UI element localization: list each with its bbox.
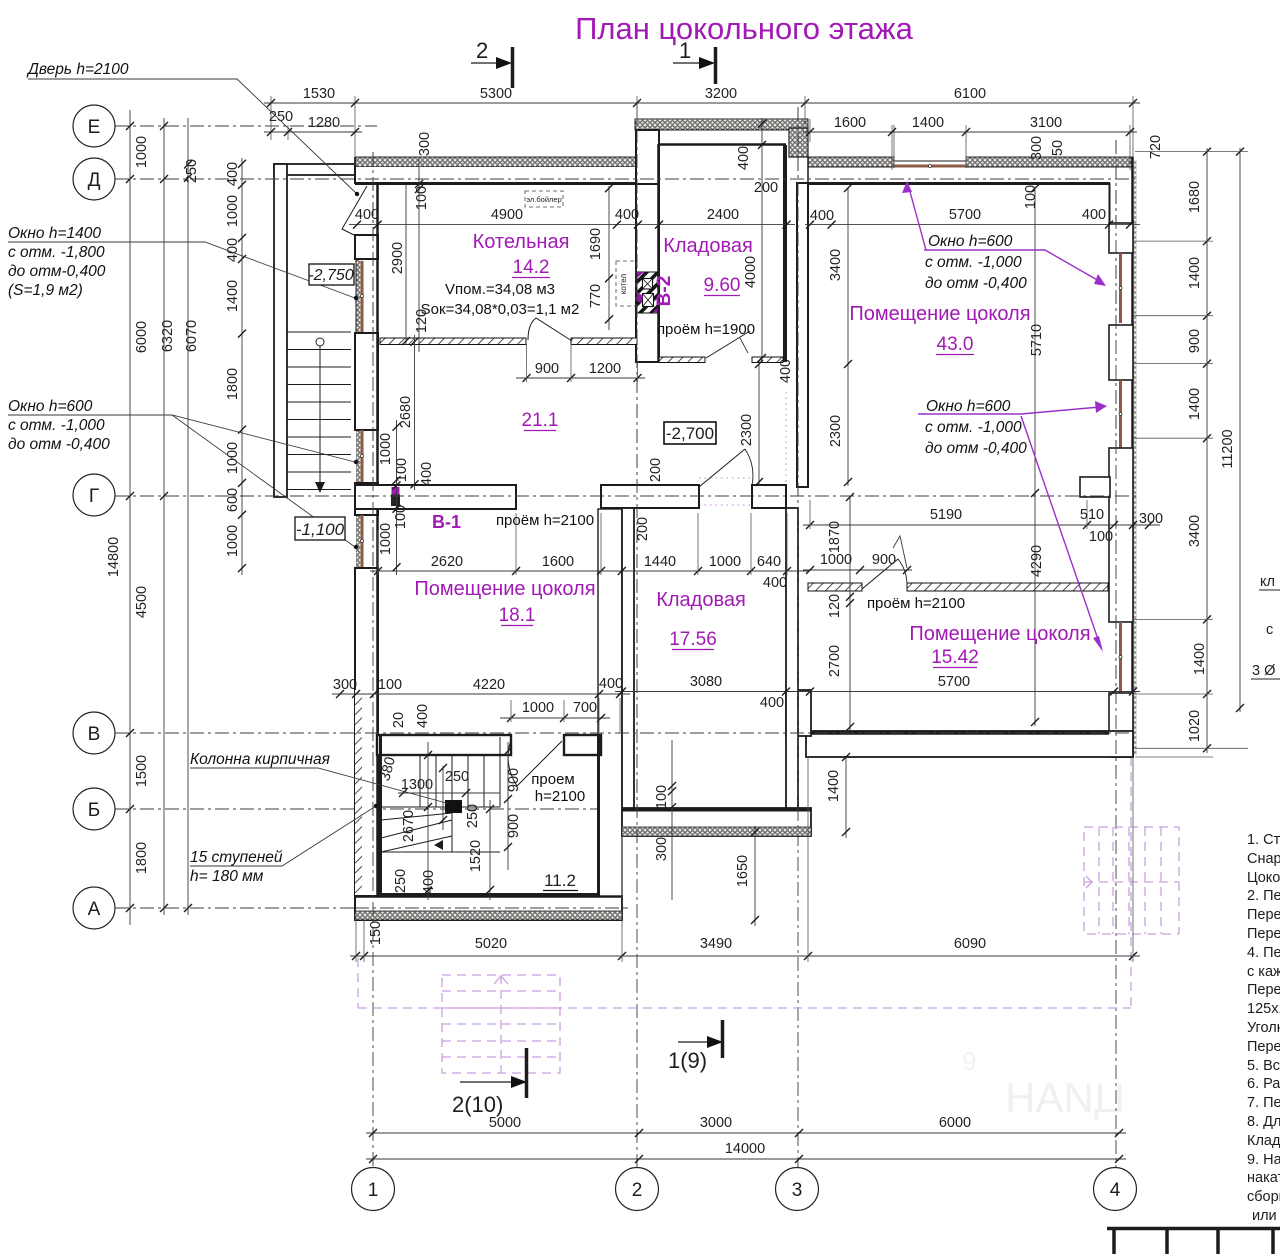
svg-text:5300: 5300 (480, 86, 512, 102)
west wall window W2 (361, 430, 364, 483)
svg-text:3100: 3100 (1030, 115, 1062, 131)
svg-text:14800: 14800 (106, 537, 122, 577)
svg-text:400: 400 (615, 207, 639, 223)
el.boyler dashed box (525, 191, 563, 207)
svg-text:1000: 1000 (225, 195, 241, 227)
svg-text:7. Перего: 7. Перего (1247, 1095, 1280, 1111)
east partition east seg (907, 583, 1108, 591)
svg-text:-1,100: -1,100 (296, 520, 345, 539)
room 11.2 top wall east (564, 735, 601, 755)
svg-text:720: 720 (1148, 135, 1164, 159)
svg-text:250: 250 (269, 109, 293, 125)
north wall west: body (355, 167, 637, 184)
svg-text:250: 250 (445, 769, 469, 785)
svg-text:200: 200 (754, 180, 778, 196)
svg-text:План цокольного этажа: План цокольного этажа (575, 11, 914, 46)
svg-text:до отм -0,400: до отм -0,400 (925, 275, 1027, 292)
svg-text:6100: 6100 (954, 86, 986, 102)
svg-text:Г: Г (89, 486, 99, 507)
svg-text:400: 400 (760, 695, 784, 711)
svg-text:400: 400 (419, 462, 435, 486)
svg-text:Помещение цоколя: Помещение цоколя (909, 623, 1090, 645)
svg-text:проём h=2100: проём h=2100 (867, 595, 965, 612)
axis D (115, 178, 1135, 180)
terrace stair walk line (316, 338, 324, 346)
svg-text:3400: 3400 (828, 249, 844, 281)
south wall east wing (806, 731, 1133, 757)
svg-text:1000: 1000 (378, 433, 394, 465)
svg-text:2300: 2300 (828, 415, 844, 447)
axis A (115, 907, 628, 909)
circle 2 (616, 1168, 659, 1211)
north wall east inner line (808, 182, 1110, 185)
svg-text:1000: 1000 (225, 442, 241, 474)
svg-text:Б: Б (88, 800, 100, 821)
dim 900/900/1520 vline (507, 742, 509, 870)
bump top wall inner line (659, 143, 786, 146)
svg-text:1440: 1440 (644, 554, 676, 570)
svg-text:Окно h=600: Окно h=600 (926, 398, 1011, 415)
circle E (73, 105, 115, 147)
svg-text:2670: 2670 (401, 810, 417, 842)
west wall window W3 (361, 515, 364, 568)
west wall lower solid (355, 568, 378, 920)
dim row y224 west (349, 224, 795, 226)
room 11.2 bottom wall (379, 893, 600, 896)
section marker 2 top (471, 38, 513, 88)
svg-text:100: 100 (393, 505, 409, 529)
vlines 2300 (758, 364, 760, 486)
svg-text:3200: 3200 (705, 86, 737, 102)
svg-text:100: 100 (378, 677, 402, 693)
svg-text:125х125: 125х125 (1247, 1001, 1280, 1017)
svg-text:Перемыч: Перемыч (1247, 1039, 1280, 1055)
svg-text:Окно h=600: Окно h=600 (928, 233, 1013, 250)
slab outline dashed right (1130, 757, 1132, 1008)
svg-text:5710: 5710 (1029, 324, 1045, 356)
svg-text:проем: проем (531, 771, 574, 788)
extension lines top (271, 96, 1133, 170)
svg-text:до отм-0,400: до отм-0,400 (8, 263, 106, 280)
svg-text:1400: 1400 (1187, 257, 1203, 289)
svg-text:300: 300 (333, 677, 357, 693)
svg-text:до отм -0,400: до отм -0,400 (925, 440, 1027, 457)
svg-text:250: 250 (393, 869, 409, 893)
svg-text:1680: 1680 (1187, 181, 1203, 213)
east wall window W1 (1119, 253, 1122, 323)
window in north wall (894, 165, 966, 168)
east wall outer line (1131, 157, 1134, 757)
east wall pier3 (1109, 448, 1133, 622)
east wall pier2 (1109, 325, 1133, 380)
svg-text:5700: 5700 (949, 207, 981, 223)
svg-text:Перемыч: Перемыч (1247, 907, 1280, 923)
svg-text:сборных: сборных (1247, 1189, 1280, 1205)
kladovaya 17.56 right wall (786, 508, 798, 808)
inner vlines x406/x419 (405, 184, 407, 345)
svg-text:1800: 1800 (225, 368, 241, 400)
right ext horizontals (1133, 152, 1248, 757)
slab outline dashed bottom (358, 1007, 1131, 1009)
terrace top wall (274, 164, 355, 175)
room 11.2 right wall (597, 735, 600, 895)
svg-text:Перемыч: Перемыч (1247, 926, 1280, 942)
kladovaya 17.56 bottom wall (622, 808, 811, 811)
circle V (73, 712, 115, 754)
west wall window W1 (356, 259, 377, 333)
svg-text:ЦИАН: ЦИАН (1005, 1074, 1125, 1121)
duct wall between 11.2 and 17.56 (598, 509, 622, 896)
svg-text:1400: 1400 (912, 115, 944, 131)
axis 1 (372, 152, 374, 1168)
kotel dashed box (616, 261, 636, 306)
svg-text:510: 510 (1080, 507, 1104, 523)
svg-text:до отм -0,400: до отм -0,400 (8, 436, 110, 453)
right notes (1247, 832, 1280, 1224)
axis V (115, 732, 1135, 734)
svg-text:Снаружи: Снаружи (1247, 851, 1280, 867)
svg-text:900: 900 (872, 552, 896, 568)
vline x853 (1870/120/2700) (849, 497, 851, 731)
svg-text:11.2: 11.2 (544, 871, 576, 890)
svg-text:3 Ø: 3 Ø (1252, 663, 1275, 679)
east wall window W2 (1119, 380, 1122, 448)
brick column (445, 800, 462, 813)
east wall pier4 (1109, 693, 1133, 757)
svg-text:640: 640 (757, 554, 781, 570)
svg-text:В-2: В-2 (654, 276, 675, 307)
svg-text:2620: 2620 (431, 554, 463, 570)
stair-above dashed symbol left (442, 975, 560, 1073)
svg-text:100: 100 (654, 785, 670, 809)
svg-text:6070: 6070 (184, 320, 200, 352)
circle 1 (352, 1168, 395, 1211)
svg-text:400: 400 (415, 704, 431, 728)
B-1 vent magenta (392, 487, 400, 495)
circle Bl (73, 788, 115, 830)
svg-text:2: 2 (632, 1180, 643, 1201)
svg-text:100: 100 (1089, 529, 1113, 545)
partition kotelnaya bottom east (571, 338, 637, 345)
svg-text:17.56: 17.56 (669, 629, 717, 650)
svg-text:3: 3 (792, 1180, 803, 1201)
svg-text:43.0: 43.0 (937, 334, 974, 355)
section marker 1(9) bottom (668, 1020, 723, 1073)
svg-text:или рул: или рул (1252, 1208, 1280, 1224)
svg-text:100: 100 (414, 186, 430, 210)
vline x414 (2680) (414, 335, 416, 490)
svg-text:Помещение цоколя: Помещение цоколя (849, 303, 1030, 325)
svg-text:Е: Е (88, 117, 101, 138)
svg-text:11200: 11200 (1220, 429, 1236, 468)
north wall west: insulation band (355, 157, 637, 167)
chimney B-2 (637, 272, 659, 313)
svg-text:кл: кл (1260, 574, 1275, 590)
svg-text:1: 1 (368, 1180, 379, 1201)
svg-text:Окно h=600: Окно h=600 (8, 398, 93, 415)
east wall G-notch (1080, 477, 1110, 497)
svg-text:Д: Д (88, 170, 101, 191)
door leaf 9.60 (706, 331, 750, 358)
svg-text:20: 20 (391, 712, 407, 728)
svg-text:А: А (88, 899, 101, 920)
axis 2 (636, 104, 638, 1168)
svg-text:1. Стены: 1. Стены (1247, 832, 1280, 848)
svg-text:1500: 1500 (134, 755, 150, 787)
svg-text:18.1: 18.1 (499, 605, 536, 626)
axis E (115, 125, 377, 127)
vline x672 (100/300) (671, 740, 673, 900)
partition kotelnaya bottom west (380, 338, 526, 345)
svg-text:Кладовая: Кладовая (663, 235, 753, 257)
svg-text:2. Перекр: 2. Перекр (1247, 888, 1280, 904)
svg-text:14000: 14000 (725, 1141, 765, 1157)
bottom table (1107, 1228, 1280, 1254)
dim row y571 (370, 570, 810, 572)
svg-text:1400: 1400 (1192, 643, 1208, 675)
svg-text:4900: 4900 (491, 207, 523, 223)
stairs room 11.2 (381, 737, 500, 852)
dim row y1159 (14000) (366, 1158, 1126, 1160)
vline x396 B1 (396, 420, 398, 575)
svg-text:900: 900 (506, 814, 522, 838)
svg-text:Кладовая: Кладовая (656, 589, 746, 611)
kotelnaya right wall (636, 184, 659, 362)
svg-text:Кладку в: Кладку в (1247, 1133, 1280, 1149)
right chain x1207 (1206, 148, 1208, 753)
svg-text:Перекрыт: Перекрыт (1247, 982, 1280, 998)
stairwell dims vlines (427, 742, 429, 900)
svg-text:3490: 3490 (700, 936, 732, 952)
svg-text:с отм. -1,000: с отм. -1,000 (925, 419, 1022, 436)
left chain x164 (163, 118, 165, 915)
svg-text:1690: 1690 (588, 228, 604, 260)
svg-text:1000: 1000 (522, 700, 554, 716)
svg-text:2680: 2680 (398, 396, 414, 428)
svg-text:300: 300 (1029, 136, 1045, 160)
svg-text:Котельная: Котельная (473, 231, 570, 253)
svg-text:5. Все дер: 5. Все дер (1247, 1058, 1280, 1074)
room 11.2 top wall west (377, 735, 511, 755)
svg-text:1520: 1520 (468, 840, 484, 872)
dim row y718 (500, 717, 610, 719)
svg-text:с каждой: с каждой (1247, 964, 1280, 980)
svg-text:3000: 3000 (700, 1115, 732, 1131)
svg-text:-2,750: -2,750 (308, 267, 353, 284)
svg-text:900: 900 (506, 768, 522, 792)
svg-text:(S=1,9 м2): (S=1,9 м2) (8, 282, 83, 299)
svg-text:400: 400 (1082, 207, 1106, 223)
pier above 43.0 (797, 183, 808, 487)
kladovaya 17.56 top wall east (752, 485, 786, 508)
section marker 1 top (673, 38, 716, 84)
svg-text:200: 200 (648, 458, 664, 482)
circle G (73, 474, 115, 516)
svg-text:2: 2 (476, 38, 488, 63)
svg-text:100: 100 (1023, 185, 1039, 209)
axis B (115, 808, 812, 810)
svg-text:5700: 5700 (938, 674, 970, 690)
svg-text:2700: 2700 (827, 645, 843, 677)
dim row y525 (5190) (803, 524, 1160, 526)
svg-text:6. Размер: 6. Размер (1247, 1076, 1280, 1092)
axes overlay (115, 104, 1140, 940)
north wall east: insulation band (808, 157, 894, 167)
svg-text:В: В (88, 724, 101, 745)
svg-text:400: 400 (421, 870, 437, 894)
svg-text:с отм. -1,800: с отм. -1,800 (8, 244, 105, 261)
door top-left leaf (342, 186, 367, 236)
svg-text:с отм. -1,000: с отм. -1,000 (925, 254, 1022, 271)
left chain x130 (129, 110, 131, 925)
svg-text:4. Перекр: 4. Перекр (1247, 945, 1280, 961)
svg-text:1000: 1000 (709, 554, 741, 570)
dim row y691 (615, 691, 1140, 693)
svg-text:3080: 3080 (690, 674, 722, 690)
B-1 wall (355, 485, 516, 509)
svg-text:150: 150 (368, 921, 384, 945)
purple dotted door threshold klad (699, 477, 752, 479)
svg-text:1(9): 1(9) (668, 1048, 707, 1073)
svg-text:5000: 5000 (489, 1115, 521, 1131)
partition 9.60 bottom west (659, 357, 705, 363)
svg-text:400: 400 (736, 146, 752, 170)
dim 250 line stairs (440, 792, 500, 794)
svg-text:1: 1 (679, 38, 691, 63)
slab outline dashed left (357, 958, 359, 1008)
east wall window W3 (1119, 622, 1122, 693)
svg-text:15 ступеней: 15 ступеней (190, 849, 283, 866)
svg-text:8. Для кре: 8. Для кре (1247, 1114, 1280, 1130)
west wall inner face line (376, 184, 379, 920)
svg-text:1000: 1000 (820, 552, 852, 568)
south wall left wing (355, 896, 622, 920)
leader proem 1900 (740, 338, 748, 353)
svg-text:1600: 1600 (542, 554, 574, 570)
left chain x242 (241, 158, 243, 575)
svg-text:1870: 1870 (827, 521, 843, 553)
svg-text:эл.бойлер: эл.бойлер (526, 195, 562, 204)
kladovaya 17.56 left wall (622, 508, 634, 808)
svg-text:проём h=1900: проём h=1900 (657, 321, 755, 338)
svg-text:1650: 1650 (735, 855, 751, 887)
svg-text:4000: 4000 (743, 256, 759, 288)
svg-text:1800: 1800 (134, 842, 150, 874)
svg-text:Vпом.=34,08 м3: Vпом.=34,08 м3 (445, 281, 555, 298)
svg-text:6000: 6000 (939, 1115, 971, 1131)
svg-text:с отм. -1,000: с отм. -1,000 (8, 417, 105, 434)
svg-text:Дверь h=2100: Дверь h=2100 (26, 61, 129, 78)
dim row 2 (264, 131, 362, 133)
right chain x1240 (1239, 148, 1241, 712)
dim 1300 line (398, 792, 470, 794)
svg-text:2(10): 2(10) (452, 1092, 503, 1117)
SE junction block (786, 690, 811, 736)
svg-text:250: 250 (465, 804, 481, 828)
vline x1035 (5710/4290) (1034, 188, 1036, 726)
svg-text:1000: 1000 (134, 136, 150, 168)
dim row y1133 (5000/3000/6000) (366, 1132, 1126, 1134)
west wall B1 junction block (355, 483, 378, 515)
axis G (115, 495, 1140, 497)
partition 9.60 bottom east (752, 357, 783, 363)
svg-text:400: 400 (810, 208, 834, 224)
section marker 2(10) bottom (452, 1048, 527, 1117)
svg-text:1300: 1300 (401, 777, 433, 793)
vline x846 (1400 south) (845, 757, 847, 838)
svg-text:400: 400 (763, 575, 787, 591)
svg-text:770: 770 (588, 284, 604, 308)
svg-text:с: с (1266, 622, 1273, 638)
svg-text:1400: 1400 (1187, 388, 1203, 420)
svg-text:1530: 1530 (303, 86, 335, 102)
svg-text:900: 900 (535, 361, 559, 377)
west wall: pier below door (355, 235, 378, 259)
circle D (73, 158, 115, 200)
svg-text:1400: 1400 (225, 280, 241, 312)
bump left wall (636, 130, 659, 184)
svg-text:накатом: накатом (1247, 1170, 1280, 1186)
svg-text:4: 4 (1110, 1180, 1121, 1201)
svg-text:Колонна кирпичная: Колонна кирпичная (190, 751, 330, 768)
svg-text:300: 300 (417, 132, 433, 156)
svg-text:2300: 2300 (739, 414, 755, 446)
svg-text:400: 400 (225, 162, 241, 186)
svg-text:Окно h=1400: Окно h=1400 (8, 225, 101, 242)
kladovaya 17.56 top wall west (601, 485, 699, 508)
dim row y570 east (803, 569, 912, 571)
svg-text:700: 700 (573, 700, 597, 716)
svg-text:900: 900 (1187, 329, 1203, 353)
dim row 1 (264, 102, 1140, 104)
svg-text:6320: 6320 (160, 320, 176, 352)
axis 3 (797, 107, 799, 1168)
terrace stairs (287, 332, 351, 490)
purple dotted lines near axis 3 (785, 392, 787, 486)
door leaf kotelnaya (528, 318, 572, 341)
svg-text:100: 100 (394, 458, 410, 482)
left chain x188 (187, 118, 189, 915)
svg-text:1000: 1000 (225, 525, 241, 557)
svg-text:6090: 6090 (954, 936, 986, 952)
svg-text:4500: 4500 (134, 586, 150, 618)
vline x609 (1690/770) (608, 186, 610, 330)
svg-text:21.1: 21.1 (522, 410, 559, 431)
dim row y694 (332, 693, 630, 695)
svg-text:2400: 2400 (707, 207, 739, 223)
svg-text:проём h=2100: проём h=2100 (496, 512, 594, 529)
svg-text:1000: 1000 (378, 523, 394, 555)
svg-text:300: 300 (654, 837, 670, 861)
kladovaya 9.60 left inner line (657, 144, 660, 362)
room 11.2 left wall (379, 735, 382, 895)
svg-text:400: 400 (355, 207, 379, 223)
svg-text:h=2100: h=2100 (535, 788, 585, 805)
watermark (962, 1046, 1125, 1121)
opening-above dashed grid right (1084, 827, 1179, 934)
svg-text:50: 50 (1050, 140, 1066, 156)
svg-text:3400: 3400 (1187, 515, 1203, 547)
door leaf 17.56 (699, 449, 745, 487)
svg-text:h= 180 мм: h= 180 мм (190, 868, 264, 885)
svg-text:-2,700: -2,700 (666, 424, 714, 443)
svg-text:400: 400 (778, 359, 794, 383)
terrace left wall (274, 164, 287, 497)
svg-text:2900: 2900 (390, 242, 406, 274)
svg-text:Уголки: Уголки (1247, 1020, 1280, 1036)
svg-text:1400: 1400 (826, 770, 842, 802)
east partition west seg (808, 583, 862, 591)
